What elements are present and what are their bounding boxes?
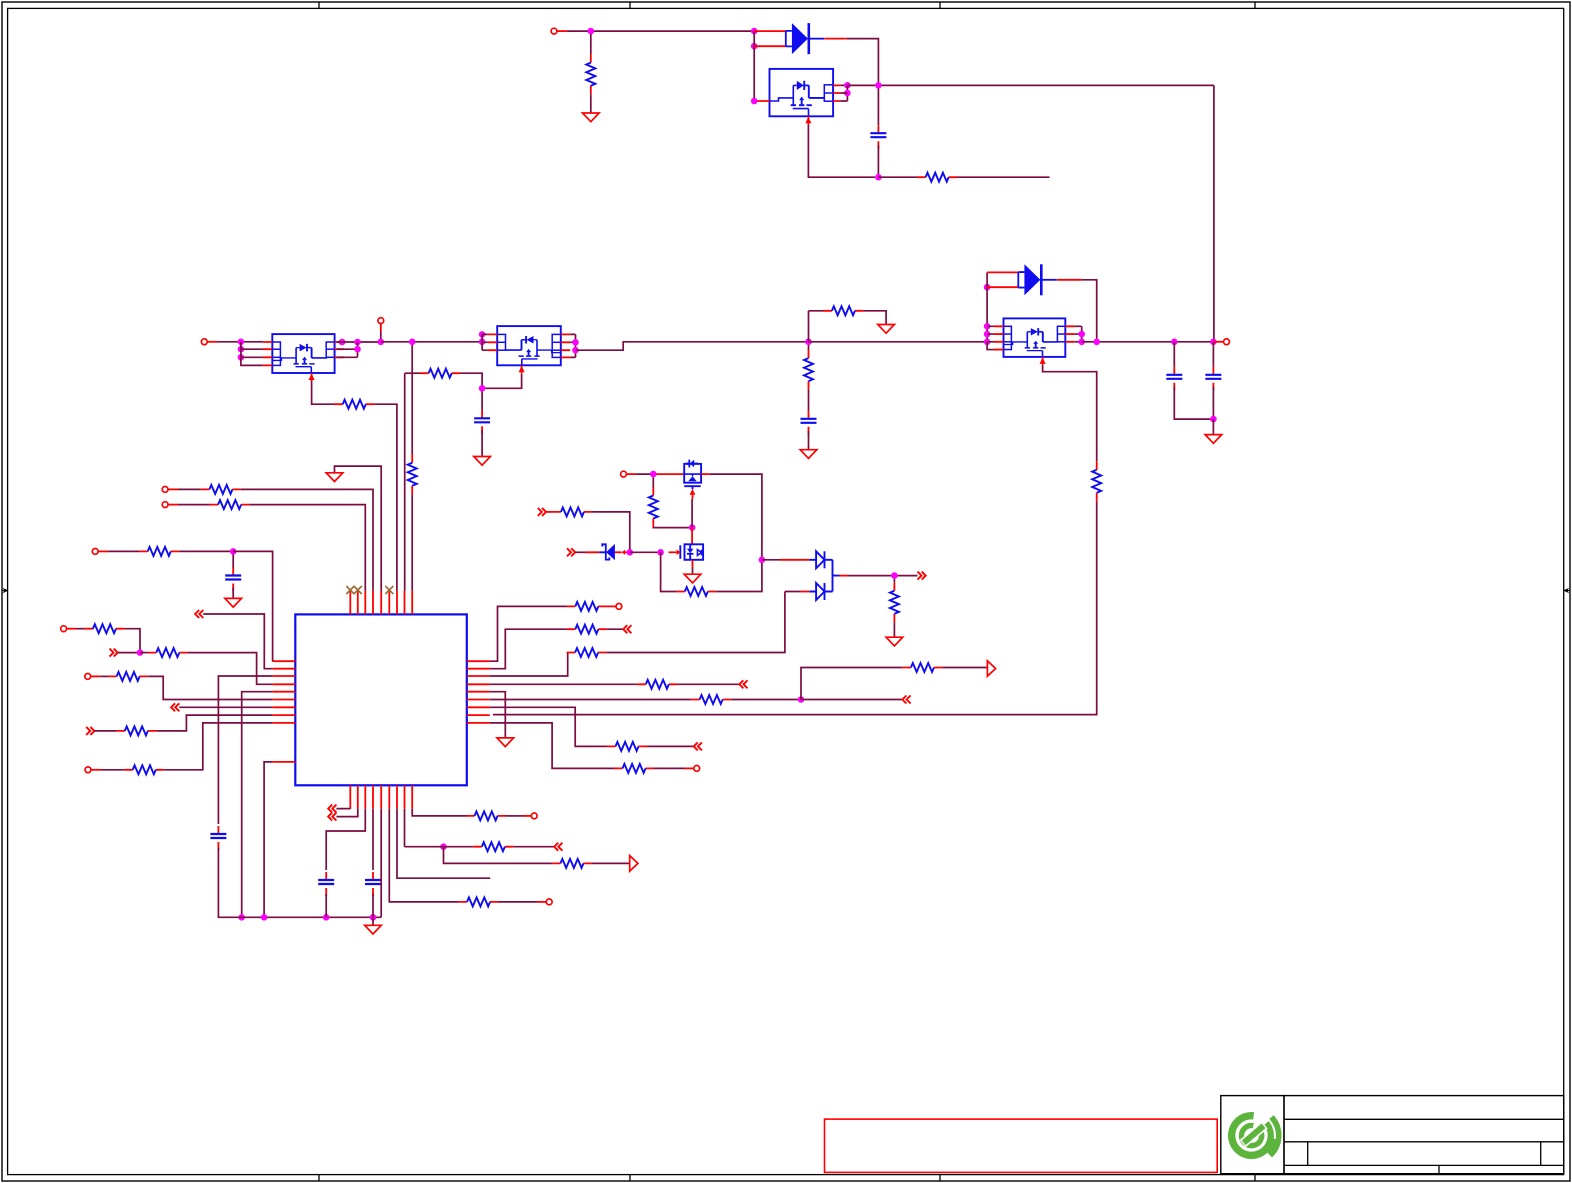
wire node F up xyxy=(809,311,824,342)
resistor R12 xyxy=(552,507,592,516)
wire D3 anode lead xyxy=(780,559,809,561)
wire P1 to junction xyxy=(567,30,754,32)
resistor R17 xyxy=(84,624,124,633)
capacitor C7 xyxy=(210,826,226,850)
wire rail ground stem xyxy=(372,917,374,925)
wire C3 down xyxy=(1212,387,1214,419)
junction node G xyxy=(650,471,657,478)
wire node I down xyxy=(893,579,895,583)
wire R1 to ground xyxy=(590,94,592,113)
resistor R3 xyxy=(823,306,863,315)
wire D3 tap to node I xyxy=(849,575,918,577)
wire R10 to MCU xyxy=(250,505,366,591)
wire V13 to MCU pin B1 xyxy=(336,808,350,810)
terminal P13 xyxy=(546,899,552,905)
wire U4 source down xyxy=(1043,365,1097,461)
wire V4 to R26 xyxy=(94,730,116,732)
wire P9 lead xyxy=(67,628,77,630)
terminal P5 xyxy=(621,471,627,477)
wire U2 left links xyxy=(241,349,263,357)
wire gate node up xyxy=(691,499,693,528)
wire P7 to R10 xyxy=(178,504,210,506)
wire R19 to MCU pin L4 xyxy=(188,653,272,685)
wire MCU pin B7 row xyxy=(397,809,490,878)
wire R30 to V7 xyxy=(513,846,554,848)
resistor R8 xyxy=(1092,461,1101,501)
wire P9 to R17 xyxy=(77,628,85,630)
port chevron V11 xyxy=(694,742,702,750)
wire P15 lead xyxy=(685,767,694,769)
wire P14 lead xyxy=(607,605,616,607)
junction Q2 gate node xyxy=(657,549,664,556)
wire D1 cathode to C1 top xyxy=(847,39,879,83)
resistor R31 xyxy=(552,859,592,868)
wire V5 lead xyxy=(546,511,552,513)
wire MCU pin R7 down xyxy=(490,707,607,746)
wire MCU pin L3 left xyxy=(218,676,272,824)
terminal P4 lead xyxy=(1213,341,1223,343)
ground GND9 xyxy=(497,738,514,747)
MOSFET module U1 xyxy=(757,69,840,124)
ground GND10 xyxy=(365,925,382,934)
ground GND6 xyxy=(225,598,242,607)
junction node B1 xyxy=(844,82,851,89)
wire U1 source down xyxy=(808,124,875,177)
resistor R14 xyxy=(676,587,716,596)
wire x412 down to R7 xyxy=(411,345,413,454)
wire P10 lead xyxy=(91,675,101,677)
wire U3 left bus xyxy=(482,334,488,350)
terminal P8 xyxy=(92,549,98,555)
wire C9 to rail xyxy=(372,894,374,917)
wire R5 vert down xyxy=(404,373,406,591)
resistor R7 xyxy=(408,454,417,494)
wire R25 to V11 xyxy=(647,745,693,747)
transistor Q1 xyxy=(684,460,710,499)
output arrow A1 xyxy=(630,856,638,872)
junction rail C8 xyxy=(323,914,330,921)
junction node E xyxy=(479,385,486,392)
wire MCU pin B3 to C8 xyxy=(326,809,365,870)
wire node M up row xyxy=(801,668,902,700)
junction U4 in 2 xyxy=(984,331,991,338)
resistor R18 xyxy=(567,625,607,634)
wire node L row xyxy=(405,846,474,848)
frame centre arrow right xyxy=(1563,588,1570,594)
frame centre arrow left xyxy=(2,588,9,594)
port chevron V3 xyxy=(171,703,179,711)
junction node C1 top xyxy=(875,82,882,89)
wire to GND4 xyxy=(1212,419,1214,435)
wire R12 to zener node xyxy=(592,512,629,549)
resistor R27 xyxy=(614,764,654,773)
resistor R24 xyxy=(691,695,731,704)
wire R7 to MCU pin xyxy=(411,494,413,591)
wire P5 to node G xyxy=(636,473,653,475)
wire P8 lead xyxy=(98,550,108,552)
wire rail A-B xyxy=(381,341,482,343)
resistor R30 xyxy=(473,842,513,851)
wire P2 red lead xyxy=(207,341,217,343)
ground GND4 xyxy=(1205,435,1222,444)
wire R24 to node M xyxy=(731,699,801,701)
port chevron V2 xyxy=(110,649,118,657)
wire R16 to P14 xyxy=(606,605,608,607)
resistor R19 xyxy=(148,648,188,657)
port chevron V8 xyxy=(623,625,631,633)
junction U3 in top xyxy=(479,331,486,338)
wire node K to R19 xyxy=(140,652,148,654)
wire R8 down to MCU row xyxy=(493,501,1097,714)
capacitor C6 xyxy=(225,568,241,592)
wire D2 cathode down xyxy=(1082,280,1097,339)
wire D1 anode bus xyxy=(753,31,755,101)
wire MCU pin T5 to ground xyxy=(335,466,382,591)
junction U1 pin1 node xyxy=(751,98,758,105)
wire U2 out row1 xyxy=(337,341,381,343)
wire rail to C3 xyxy=(1212,342,1214,367)
junction node H xyxy=(759,557,766,564)
junction rail x412 xyxy=(409,339,416,346)
capacitor C1 xyxy=(870,125,886,149)
terminal P4 xyxy=(1224,339,1230,345)
wire P6 to R9 xyxy=(178,488,201,490)
ground GND3 xyxy=(800,450,817,459)
diode D2 anode pins xyxy=(987,272,1018,287)
wire D4 left xyxy=(785,591,801,593)
capacitor C9 xyxy=(365,872,381,896)
ground GND8 xyxy=(684,574,701,583)
wire P2 to U2 xyxy=(217,341,263,343)
wire P10 to R22 xyxy=(101,675,109,677)
junction D1 anode 2 xyxy=(751,43,758,50)
junction node M xyxy=(798,696,805,703)
wire MCU pin B6 row xyxy=(389,809,458,902)
wire node B1 bus xyxy=(847,85,1214,101)
ground GND1 xyxy=(583,113,600,122)
junction node J xyxy=(230,548,237,555)
wire U1 right pin1 to node xyxy=(840,84,847,86)
port chevron V6 xyxy=(567,548,575,556)
transistor Q2 xyxy=(669,544,704,567)
no-connect X3 xyxy=(385,586,393,594)
junction node F xyxy=(805,339,812,346)
junction U2 out tie top xyxy=(354,339,361,346)
wire node J to MCU pin L1 xyxy=(233,551,272,661)
wire P8 to R13 xyxy=(108,550,139,552)
wire V6 to D5 xyxy=(575,551,585,553)
output arrow A2 xyxy=(987,661,995,677)
wire V1 to MCU pin L2 xyxy=(203,614,272,669)
resistor R26 xyxy=(116,726,156,735)
terminal P9 xyxy=(61,626,67,632)
wire MCU pin L5 down xyxy=(242,692,273,918)
junction U2 in 3 xyxy=(238,354,245,361)
wire junction down to R1 xyxy=(590,34,592,54)
junction gnd node xyxy=(1210,416,1217,423)
wire node to C1 xyxy=(877,88,879,125)
capacitor C3 xyxy=(1205,367,1221,391)
MOSFET module U3 xyxy=(488,326,571,373)
wire D2 anode bus xyxy=(986,272,988,341)
wire P12 lead xyxy=(522,815,531,817)
wire R13 to node J xyxy=(179,550,233,552)
wire P13 lead xyxy=(537,901,546,903)
capacitor C2 xyxy=(1166,367,1182,391)
wire P1 red lead xyxy=(557,30,567,32)
diode D5 leads xyxy=(585,551,621,553)
wire R21 to arrow xyxy=(942,668,987,669)
port chevron V14 xyxy=(328,813,336,821)
wire MCU pin B9 row xyxy=(412,809,466,816)
terminal P3 xyxy=(378,318,384,324)
wire C7 to rail xyxy=(218,848,381,917)
wire R28 to MCU pin L9 xyxy=(164,723,272,770)
resistor R11 xyxy=(649,487,658,527)
diode D2 cathode pin xyxy=(1057,279,1082,281)
wire MCU pin R4 row xyxy=(490,683,638,685)
no-connect X2 xyxy=(354,586,362,594)
resistor R5 xyxy=(420,369,460,378)
ground GND11 xyxy=(886,637,903,646)
resistor R6 xyxy=(334,400,374,409)
junction node K xyxy=(137,649,144,656)
resistor R10 xyxy=(210,500,250,509)
wire R4 to C5 xyxy=(808,390,810,411)
wire MCU pin B5 to rail xyxy=(380,809,382,918)
junction node D xyxy=(875,174,882,181)
wire P6 lead xyxy=(168,488,178,490)
wire R17 to node K xyxy=(124,629,140,653)
wire rail B-C xyxy=(576,342,809,350)
wire P11 lead xyxy=(91,769,101,771)
wire R11 to gate node xyxy=(653,526,692,529)
wire U2 out tie xyxy=(337,342,358,357)
port chevron V10 xyxy=(902,696,910,704)
capacitor C4 xyxy=(474,410,490,434)
wire R9 to MCU xyxy=(241,489,373,591)
junction rail L5 xyxy=(238,914,245,921)
wire node D to R2 xyxy=(878,176,917,178)
junction U4 in 1 xyxy=(984,323,991,330)
resistor R9 xyxy=(201,485,241,494)
terminal P11 xyxy=(85,767,91,773)
wire P11 to R28 xyxy=(101,769,124,771)
junction node I xyxy=(891,572,898,579)
wire R32 to P13 xyxy=(499,901,538,903)
wire P3 red stub xyxy=(380,324,382,332)
wire R18 to V8 xyxy=(607,628,623,630)
junction Q1 gate node xyxy=(689,524,696,531)
terminal P10 xyxy=(85,674,91,680)
port chevron V5 xyxy=(538,508,546,516)
terminal P1 xyxy=(551,28,557,34)
wire C2 down xyxy=(1174,387,1210,419)
junction rail gnd xyxy=(370,914,377,921)
terminal P15 xyxy=(694,766,700,772)
frame zone ticks xyxy=(319,2,1255,1181)
port chevron V9 xyxy=(739,680,747,688)
wire R22 to MCU pin L6 xyxy=(148,676,272,699)
resistor R32 xyxy=(459,897,499,906)
MOSFET module U2 xyxy=(263,334,344,381)
IC U5 MCU xyxy=(272,591,490,809)
wire V3 to MCU pin L7 xyxy=(179,706,272,708)
ground GND5 xyxy=(474,457,491,466)
junction rail L10 xyxy=(261,914,268,921)
ground GND7 xyxy=(326,473,343,482)
wire node M to V10 xyxy=(801,699,902,701)
wire V14 to MCU pin B2 xyxy=(336,809,357,817)
wire R15 to ground xyxy=(893,622,895,637)
resistor R21 xyxy=(902,663,942,672)
wire R20 to D4 xyxy=(607,592,785,653)
junction U2 out 1 xyxy=(339,339,346,346)
wire U4 right ties xyxy=(1075,326,1082,342)
wire MCU pin R2 up xyxy=(490,629,567,669)
junction U3 out 2 xyxy=(572,347,579,354)
wire U1 pin3 link xyxy=(840,93,847,101)
title block xyxy=(1221,1096,1564,1174)
annotation red box xyxy=(825,1119,1218,1172)
wire node L down xyxy=(444,847,552,864)
wire node F down xyxy=(808,345,810,350)
wire MCU pin B4 to C9 xyxy=(372,809,374,870)
resistor R15 xyxy=(890,582,899,622)
wire R14 up to Q1 drain xyxy=(710,474,762,591)
junction U4 in rail xyxy=(984,339,991,346)
diode D1 cathode pin xyxy=(825,38,847,40)
wire top rail right down xyxy=(1213,85,1215,341)
wire V2 to node K xyxy=(118,652,140,654)
junction U3 in rail xyxy=(479,339,486,346)
wire C1 to node D xyxy=(877,145,879,177)
wire P7 lead xyxy=(168,504,178,506)
resistor R23 xyxy=(637,680,677,689)
junction U2 out tie mid xyxy=(354,346,361,353)
junction node A xyxy=(588,28,595,35)
wire MCU pin R6 row xyxy=(490,699,691,701)
resistor R25 xyxy=(607,742,647,751)
diode D1 xyxy=(786,23,825,54)
wire R29 to P12 xyxy=(506,815,522,817)
MOSFET module U4 xyxy=(994,318,1075,365)
wire MCU pin R3 up xyxy=(490,653,568,677)
capacitor C8 xyxy=(318,872,334,896)
junction cap C2 rail xyxy=(1171,339,1178,346)
resistor R13 xyxy=(139,547,179,556)
junction U4 out rail xyxy=(1078,339,1085,346)
port chevron V12 xyxy=(918,572,926,580)
wire MCU pin L10 to rail xyxy=(264,762,272,917)
junction U2 in 1 xyxy=(238,339,245,346)
resistor R16 xyxy=(567,602,607,611)
wire D4 anode lead xyxy=(801,591,810,593)
junction U4 out mid xyxy=(1078,331,1085,338)
junction cathode rail xyxy=(1093,339,1100,346)
terminal P14 xyxy=(616,604,622,610)
junction D2 anode node xyxy=(984,284,991,291)
junction U2 in 2 xyxy=(238,346,245,353)
resistor R22 xyxy=(108,672,148,681)
logo xyxy=(1232,1116,1278,1156)
wire Q2 drain lead xyxy=(691,528,693,544)
wire C4 to ground xyxy=(481,430,483,456)
wire Q2 node down xyxy=(661,552,677,591)
resistor R1 xyxy=(586,54,595,94)
capacitor C5 xyxy=(801,411,817,435)
wire R6 to MCU pin xyxy=(374,404,397,591)
wire MCU pin R9 down xyxy=(490,723,614,769)
junction node L xyxy=(440,843,447,850)
junction P3 rail xyxy=(378,339,385,346)
wire R27 to P15 xyxy=(654,767,685,769)
wire U4 left bus xyxy=(987,326,994,349)
ground GND2 xyxy=(878,325,895,334)
junction D1 anode 1 xyxy=(751,28,758,35)
wire R26 to MCU pin L8 xyxy=(156,715,272,731)
port chevron V13 xyxy=(328,805,336,813)
wire R5 row xyxy=(405,372,421,374)
wire U3 right ties xyxy=(570,334,575,357)
junction zener node xyxy=(627,549,634,556)
wire R5 to node E xyxy=(460,373,482,385)
port chevron V7 xyxy=(554,843,562,851)
wire C8 to rail xyxy=(325,894,327,917)
resistor R20 xyxy=(567,648,607,657)
junction cap C3 rail xyxy=(1210,339,1217,346)
resistor R2 xyxy=(917,173,957,182)
port chevron V4 xyxy=(86,727,94,735)
terminal P7 xyxy=(162,502,168,508)
wire C6 to ground xyxy=(232,588,234,599)
wire C5 to ground xyxy=(808,431,810,450)
wire node J down xyxy=(232,555,234,568)
wire node H to D3 xyxy=(762,559,780,561)
wire Q1 left pin xyxy=(656,473,684,475)
wire R23 to V9 xyxy=(677,683,739,685)
resistor R4 xyxy=(804,350,813,390)
wire U2 source down xyxy=(312,381,335,404)
terminal P6 xyxy=(162,487,168,493)
wire MCU pin R5 to ground xyxy=(490,692,506,738)
diode D1 anode pins xyxy=(754,31,786,46)
wire R2 tail xyxy=(957,176,1049,178)
terminal P2 xyxy=(201,339,207,345)
diode D2 xyxy=(1018,264,1057,295)
wire P3 down xyxy=(380,332,382,342)
wire node G down xyxy=(652,477,654,487)
terminal P12 xyxy=(531,813,537,819)
wire P5 red lead xyxy=(626,473,636,475)
no-connect X1 xyxy=(346,586,354,594)
wire R3 to ground xyxy=(863,311,886,325)
wire U3 source down xyxy=(485,374,521,389)
wire node E down xyxy=(481,391,483,410)
wire R31 to arrow xyxy=(592,862,630,864)
junction node B2 xyxy=(844,90,851,97)
wire zener node to Q2 node xyxy=(630,551,661,553)
resistor R29 xyxy=(466,811,506,820)
wire MCU pin R1 up xyxy=(490,606,567,661)
wire rail C-D2 xyxy=(809,341,988,343)
wire rail to C2 xyxy=(1173,342,1175,367)
wire rail D2-caps xyxy=(1082,341,1214,343)
wire U2 left bus xyxy=(241,342,263,366)
dual diode D3 D4 xyxy=(809,551,848,600)
wire MCU pin B8 row xyxy=(404,809,406,847)
port chevron V1 xyxy=(195,610,203,618)
